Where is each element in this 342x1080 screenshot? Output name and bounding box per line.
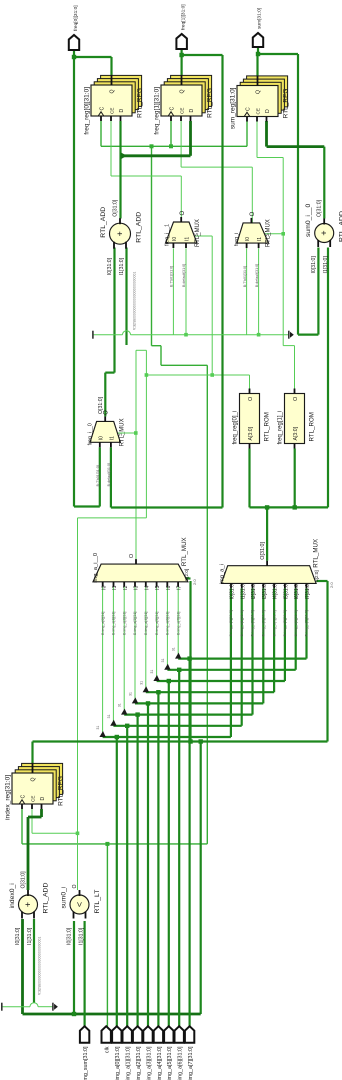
svg-text:B:7'b01[31:0]: B:7'b01[31:0] <box>243 266 247 287</box>
svg-text:img_a[2][31:0]: img_a[2][31:0] <box>136 1046 142 1080</box>
svg-text:D: D <box>119 109 125 113</box>
svg-text:freq[1][31:0]: freq[1][31:0] <box>180 4 186 30</box>
svg-text:B:7'b01[31:0]: B:7'b01[31:0] <box>96 465 100 486</box>
svg-text:B:img_a[3][31:0]: B:img_a[3][31:0] <box>262 610 266 636</box>
svg-text:B:img_a[1][31]: B:img_a[1][31] <box>112 612 116 635</box>
svg-text:freq_reg[1]_i: freq_reg[1]_i <box>278 411 284 445</box>
svg-text:RTL_MUX: RTL_MUX <box>195 219 201 247</box>
svg-text:clk: clk <box>105 1046 111 1053</box>
svg-text:I7[31:0]: I7[31:0] <box>305 582 311 599</box>
svg-text:RTL_ROM: RTL_ROM <box>264 412 271 441</box>
svg-text:CE: CE <box>109 108 114 114</box>
svg-text:I1: I1 <box>257 237 263 241</box>
svg-text:RTL_REG: RTL_REG <box>58 776 65 806</box>
svg-text:B:img_a[7][31:0]: B:img_a[7][31:0] <box>305 610 309 636</box>
svg-text:B:img_a[2][31]: B:img_a[2][31] <box>122 612 126 635</box>
svg-text:+: + <box>319 230 329 235</box>
svg-text:B:img_a[6][31:0]: B:img_a[6][31:0] <box>294 610 298 636</box>
svg-text:A[3:0]: A[3:0] <box>248 426 254 440</box>
svg-text:RTL_ADD: RTL_ADD <box>100 207 107 238</box>
svg-text:I0: I0 <box>98 436 104 440</box>
svg-text:CE: CE <box>30 796 35 802</box>
svg-text:sum[31:0]: sum[31:0] <box>257 8 263 29</box>
svg-text:sum0_i: sum0_i <box>61 886 68 908</box>
svg-text:RTL_MUX: RTL_MUX <box>266 219 272 247</box>
svg-text:RTL_ROM: RTL_ROM <box>309 412 316 441</box>
svg-text:freq_i: freq_i <box>234 233 240 246</box>
svg-text:I4: I4 <box>144 585 150 589</box>
svg-text:C: C <box>20 795 26 799</box>
svg-text:O: O <box>180 211 186 216</box>
svg-text:B:img_a[3][31]: B:img_a[3][31] <box>133 612 137 635</box>
svg-text:img_a[3][31:0]: img_a[3][31:0] <box>146 1046 152 1080</box>
svg-text:I1: I1 <box>109 436 115 440</box>
svg-text:31: 31 <box>118 703 122 707</box>
svg-text:31: 31 <box>96 726 100 730</box>
svg-text:B:7'b01[31:0]: B:7'b01[31:0] <box>170 266 174 287</box>
svg-text:C: C <box>99 107 105 111</box>
svg-text:RTL_REG: RTL_REG <box>137 88 144 118</box>
svg-text:O: O <box>250 211 256 216</box>
svg-text:O[31:0]: O[31:0] <box>113 199 119 217</box>
svg-text:img_a[0][31:0]: img_a[0][31:0] <box>115 1046 121 1080</box>
svg-text:2:0: 2:0 <box>329 582 334 588</box>
svg-text:I5[31:0]: I5[31:0] <box>284 582 290 599</box>
svg-text:31: 31 <box>129 692 133 696</box>
svg-text:I6[31:0]: I6[31:0] <box>294 582 300 599</box>
svg-text:img_a[4][31:0]: img_a[4][31:0] <box>157 1046 163 1080</box>
svg-text:RTL_MUX: RTL_MUX <box>120 418 126 446</box>
svg-text:B:img_a[4][31]: B:img_a[4][31] <box>144 612 148 635</box>
svg-text:I6: I6 <box>166 585 172 589</box>
svg-text:I3[31:0]: I3[31:0] <box>262 582 268 599</box>
svg-text:B:img_a[6][31]: B:img_a[6][31] <box>166 612 170 635</box>
svg-text:O: O <box>129 554 135 558</box>
svg-text:S[2:0]: S[2:0] <box>314 570 319 582</box>
svg-text:31: 31 <box>139 681 143 685</box>
svg-text:31: 31 <box>172 647 176 651</box>
svg-text:S[2:0]: S[2:0] <box>184 569 189 581</box>
svg-text:I1[31:0]: I1[31:0] <box>323 256 329 274</box>
svg-text:B:img_a[0][31]: B:img_a[0][31] <box>101 612 105 635</box>
svg-text:V:32'sb00000000000000000000000: V:32'sb0000000000000000000000001 <box>132 272 136 330</box>
svg-text:B:img_a[5][31]: B:img_a[5][31] <box>155 612 159 635</box>
svg-text:I2[31:0]: I2[31:0] <box>251 582 257 599</box>
svg-text:Q: Q <box>256 90 262 94</box>
svg-text:freq_i__1: freq_i__1 <box>165 224 171 246</box>
svg-text:O: O <box>248 397 254 401</box>
svg-text:Q: Q <box>110 89 116 93</box>
svg-text:sum_reg[31:0]: sum_reg[31:0] <box>230 87 237 129</box>
svg-text:<: < <box>75 902 85 907</box>
svg-text:B:img_a[7][31]: B:img_a[7][31] <box>176 612 180 635</box>
svg-text:img_a_i__0: img_a_i__0 <box>93 553 99 583</box>
svg-text:I1[31:0]: I1[31:0] <box>78 927 84 945</box>
svg-text:sum0_i__0: sum0_i__0 <box>305 204 312 237</box>
svg-text:O[31:0]: O[31:0] <box>98 396 104 414</box>
svg-text:C: C <box>169 107 175 111</box>
svg-text:I0[31:0]: I0[31:0] <box>66 927 72 945</box>
svg-text:I0: I0 <box>101 585 107 589</box>
svg-text:31: 31 <box>161 658 165 662</box>
svg-text:RTL_ADD: RTL_ADD <box>136 212 143 243</box>
svg-text:31: 31 <box>107 714 111 718</box>
svg-text:index_reg[31:0]: index_reg[31:0] <box>5 775 12 820</box>
svg-text:I1[31:0]: I1[31:0] <box>240 582 246 599</box>
svg-text:I1[31:0]: I1[31:0] <box>27 927 33 945</box>
svg-text:Q: Q <box>31 777 37 781</box>
svg-text:img_a[5][31:0]: img_a[5][31:0] <box>167 1046 173 1080</box>
svg-text:C: C <box>245 107 251 111</box>
svg-text:I4[31:0]: I4[31:0] <box>273 582 279 599</box>
svg-text:O: O <box>104 410 110 415</box>
svg-text:RTL_LT: RTL_LT <box>94 890 101 914</box>
svg-text:I1: I1 <box>112 585 118 589</box>
svg-text:B:img_a[5][31:0]: B:img_a[5][31:0] <box>283 610 287 636</box>
svg-text:Q: Q <box>180 89 186 93</box>
svg-text:freq_reg[0]_i: freq_reg[0]_i <box>233 411 239 445</box>
svg-text:img_a[1][31:0]: img_a[1][31:0] <box>126 1046 132 1080</box>
svg-text:I0: I0 <box>172 237 178 241</box>
svg-text:I2: I2 <box>123 585 129 589</box>
svg-text:freq[0][31:0]: freq[0][31:0] <box>73 5 79 31</box>
svg-text:RTL_REG: RTL_REG <box>207 88 214 118</box>
svg-text:+: + <box>23 902 33 907</box>
svg-text:RTL_MUX: RTL_MUX <box>181 537 188 566</box>
svg-text:img_a[6][31:0]: img_a[6][31:0] <box>178 1046 184 1080</box>
svg-text:I0[31:0]: I0[31:0] <box>15 927 21 945</box>
svg-text:img_a_i: img_a_i <box>220 564 226 584</box>
svg-text:RTL_ADD: RTL_ADD <box>43 883 50 914</box>
svg-text:2:0: 2:0 <box>192 579 197 585</box>
svg-text:freq_reg[1][31:0]: freq_reg[1][31:0] <box>154 87 161 135</box>
svg-text:B:default[31:0]: B:default[31:0] <box>107 463 111 486</box>
svg-text:freq_reg[0][31:0]: freq_reg[0][31:0] <box>84 87 91 135</box>
svg-text:B:default[31:0]: B:default[31:0] <box>255 264 259 287</box>
svg-text:freq_i__0: freq_i__0 <box>88 423 94 445</box>
svg-text:B:default[31:0]: B:default[31:0] <box>182 264 186 287</box>
svg-text:I0: I0 <box>245 237 251 241</box>
svg-text:I1: I1 <box>185 237 191 241</box>
svg-text:I1[31:0]: I1[31:0] <box>119 257 125 275</box>
svg-text:V:32'sb00000000000000000000000: V:32'sb0000000000000000000000001 <box>38 937 42 995</box>
svg-text:I0[31:0]: I0[31:0] <box>230 582 236 599</box>
svg-text:I0[31:0]: I0[31:0] <box>311 256 317 274</box>
svg-text:I3: I3 <box>134 585 140 589</box>
svg-text:D: D <box>265 109 271 113</box>
svg-text:B:img_a[4][31:0]: B:img_a[4][31:0] <box>272 610 276 636</box>
svg-text:O[31:0]: O[31:0] <box>260 542 266 560</box>
svg-text:A[3:0]: A[3:0] <box>293 426 299 440</box>
svg-text:img_a[7][31:0]: img_a[7][31:0] <box>188 1046 194 1080</box>
svg-text:I5: I5 <box>155 585 161 589</box>
svg-text:I0[31:0]: I0[31:0] <box>107 257 113 275</box>
svg-text:img_sum[31:0]: img_sum[31:0] <box>83 1046 89 1080</box>
svg-text:D: D <box>189 109 195 113</box>
svg-text:O: O <box>293 397 299 401</box>
svg-text:B:img_a[0][31:0]: B:img_a[0][31:0] <box>229 610 233 636</box>
svg-text:B:img_a[2][31:0]: B:img_a[2][31:0] <box>251 610 255 636</box>
svg-text:index0_i: index0_i <box>9 883 16 909</box>
svg-text:RTL_REG: RTL_REG <box>283 89 290 119</box>
svg-text:CE: CE <box>255 108 260 114</box>
svg-text:RTL_MUX: RTL_MUX <box>313 539 320 568</box>
svg-text:D: D <box>40 797 46 801</box>
svg-text:+: + <box>115 231 125 236</box>
svg-text:O[31:0]: O[31:0] <box>21 871 27 889</box>
svg-text:CE: CE <box>179 108 184 114</box>
svg-text:I7: I7 <box>177 585 183 589</box>
svg-text:O[31:0]: O[31:0] <box>317 199 323 217</box>
svg-text:B:img_a[1][31:0]: B:img_a[1][31:0] <box>240 610 244 636</box>
svg-text:31: 31 <box>150 670 154 674</box>
svg-text:O: O <box>72 884 78 888</box>
